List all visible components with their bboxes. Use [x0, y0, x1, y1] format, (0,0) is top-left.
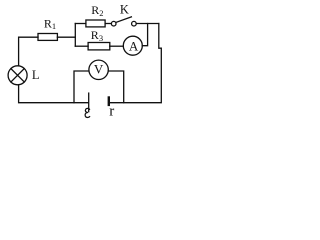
svg-text:L: L	[32, 68, 40, 82]
svg-text:V: V	[94, 62, 104, 77]
svg-text:r: r	[109, 103, 114, 119]
svg-text:K: K	[120, 3, 129, 17]
svg-text:A: A	[129, 38, 139, 53]
